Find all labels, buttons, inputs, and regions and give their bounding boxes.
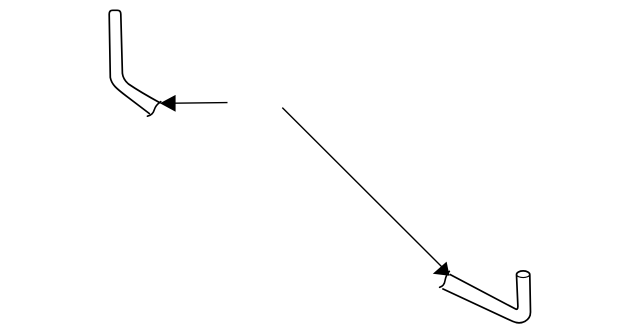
J-shaped hose (lower right part) xyxy=(442,271,530,323)
J hose top opening inner rim arc xyxy=(517,275,530,278)
diagonal leader arrowhead xyxy=(433,262,450,276)
leader arrow line (diagonal) xyxy=(282,108,446,271)
J hose open-end rim xyxy=(440,271,450,287)
elbow hose open-end rim xyxy=(147,102,160,117)
leader arrowhead (left-pointing) xyxy=(160,95,176,112)
elbow hose (upper left part) xyxy=(109,10,160,113)
leader arrow line (horizontal) xyxy=(174,102,228,105)
